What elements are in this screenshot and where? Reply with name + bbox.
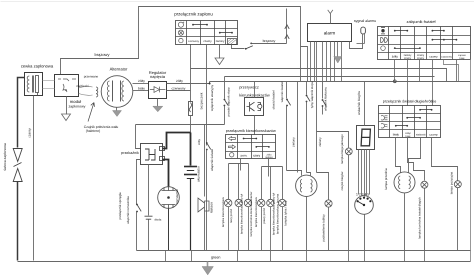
plate lamp podswietlenie tablicy bbox=[317, 173, 329, 200]
wire rail red from fuse line to right bbox=[191, 69, 447, 82]
light switch contacts row3 bbox=[394, 47, 396, 49]
svg-text:zielony: zielony bbox=[318, 137, 322, 147]
wire light circuit switch bbox=[286, 82, 288, 99]
svg-text:przekaźnik: przekaźnik bbox=[121, 151, 139, 155]
wire tail light down bbox=[306, 197, 308, 251]
wire regulator red output bbox=[167, 90, 191, 92]
wire alternator to regulator yellow bbox=[133, 83, 149, 85]
svg-text:żółty: żółty bbox=[392, 54, 399, 58]
svg-text:zapasowy: zapasowy bbox=[441, 55, 452, 58]
svg-text:wyłącznik awaryjny: wyłącznik awaryjny bbox=[210, 84, 214, 111]
emergency kill switch bbox=[206, 142, 208, 144]
svg-text:lampka kierunkowskazu lewy tył: lampka kierunkowskazu lewy tył bbox=[240, 193, 244, 234]
svg-text:1 2 3 4 5: 1 2 3 4 5 bbox=[356, 192, 369, 196]
svg-text:włącznik świateł: włącznik świateł bbox=[210, 149, 214, 171]
svg-text:lampka biegu jałowego: lampka biegu jałowego bbox=[340, 134, 344, 164]
svg-text:czarny: czarny bbox=[417, 57, 425, 60]
thick wire fuse junction to battery bbox=[190, 133, 192, 166]
contacts row2 bbox=[219, 32, 221, 34]
svg-text:lampka kierunkowskazu: lampka kierunkowskazu bbox=[221, 196, 225, 227]
svg-text:czujnik biegów: czujnik biegów bbox=[340, 171, 344, 191]
wire front brake switch bbox=[224, 77, 226, 99]
wire relay to starter button bbox=[137, 160, 141, 205]
svg-text:biały: biały bbox=[460, 57, 466, 60]
svg-text:biały: biały bbox=[406, 135, 412, 138]
ground alarm wire bbox=[337, 42, 339, 57]
ignition module modul zaplonowy bbox=[55, 75, 79, 97]
wire dimmer to high beam telltale bbox=[408, 138, 425, 181]
svg-text:cewka zapłonowa: cewka zapłonowa bbox=[21, 64, 54, 69]
spark plug swieca zaplonowa bbox=[13, 149, 22, 182]
icon low beam bbox=[381, 124, 388, 128]
wire siren to alarm bbox=[350, 34, 363, 49]
ground bus lower bbox=[18, 261, 471, 263]
icon park lights bbox=[381, 37, 388, 42]
wire flasher top bbox=[254, 82, 256, 98]
wire horn switch bbox=[322, 82, 324, 99]
svg-text:czerwony: czerwony bbox=[188, 40, 200, 43]
fuse F1 bezpiecznik bbox=[190, 45, 192, 102]
wires light switch down to bus bbox=[394, 60, 396, 82]
svg-text:lampka kontrolna kierunkowskaz: lampka kontrolna kierunkowskazów bbox=[249, 191, 253, 237]
svg-text:czarny: czarny bbox=[27, 128, 31, 138]
wire brown bus: module top to top bus line bbox=[61, 7, 301, 82]
alarm antenna bbox=[330, 14, 332, 24]
icon high beam bbox=[381, 116, 388, 120]
svg-text:podświetlenie tablicy: podświetlenie tablicy bbox=[321, 214, 325, 242]
icon headlight on bbox=[381, 29, 384, 32]
ground alternator bbox=[116, 108, 118, 111]
icon lights off bbox=[381, 46, 386, 51]
svg-text:włącznik świateł: włącznik świateł bbox=[280, 81, 284, 102]
turn lamp left rear bbox=[235, 199, 242, 206]
wire zielony to tail lamp bbox=[297, 82, 299, 171]
main ground arrow bbox=[207, 262, 209, 268]
headlight lampa przednia bbox=[394, 172, 415, 193]
svg-text:niebies: niebies bbox=[265, 156, 273, 159]
turn lamp right front bbox=[258, 199, 265, 206]
svg-text:brązowy: brązowy bbox=[95, 52, 110, 57]
horn klakson bbox=[204, 125, 206, 197]
wire battery to ground bus bbox=[190, 179, 192, 251]
turn lamp left front bbox=[225, 199, 232, 206]
svg-text:włącznik klaksonu: włącznik klaksonu bbox=[324, 87, 328, 111]
wire brake switch rear bbox=[306, 82, 308, 95]
wire main yellow bus to light switch bbox=[209, 82, 211, 84]
starter relay przekaznik bbox=[141, 144, 163, 165]
wire ignition col3 to ground bbox=[219, 45, 221, 59]
turn lamp telltale bbox=[244, 199, 251, 206]
svg-text:prawy przód: prawy przód bbox=[262, 208, 266, 224]
svg-text:alarm: alarm bbox=[324, 30, 336, 35]
wire headlight down bbox=[404, 193, 406, 251]
wire gear sensor down bbox=[364, 215, 366, 251]
svg-text:czarny: czarny bbox=[429, 54, 438, 58]
svg-text:przerywacz: przerywacz bbox=[239, 84, 259, 89]
wires turn lamps to ground bus bbox=[228, 207, 230, 251]
icon run position bbox=[178, 22, 183, 27]
svg-text:przełącznik sprzęgła: przełącznik sprzęgła bbox=[118, 192, 122, 220]
battery akumulator bbox=[184, 167, 197, 179]
wire kill switch to connector bbox=[252, 43, 287, 45]
connector wire with chevrons bbox=[286, 9, 288, 44]
svg-text:lampa przednia: lampa przednia bbox=[384, 168, 388, 189]
wire turn switch right output bbox=[268, 159, 270, 177]
wire ignition lock to kill switch bbox=[232, 45, 245, 49]
svg-text:przerwane: przerwane bbox=[84, 75, 99, 79]
wire alternator to regulator white bbox=[133, 90, 149, 92]
wire feeder to neutral lamp bbox=[317, 132, 349, 149]
svg-text:przedni włącznik stopu: przedni włącznik stopu bbox=[227, 87, 231, 116]
right edge wire bbox=[470, 60, 472, 262]
svg-text:rozrusznik: rozrusznik bbox=[175, 189, 179, 204]
svg-text:czarny: czarny bbox=[404, 57, 412, 60]
svg-text:przełącznik zapłonu: przełącznik zapłonu bbox=[174, 11, 213, 16]
wire starter to ground bus bbox=[168, 209, 170, 251]
icon arrow right bbox=[229, 145, 236, 149]
wire bus to relay coil bbox=[136, 125, 141, 149]
wire horn to ground bus bbox=[204, 211, 206, 251]
starter motor rozrusznik bbox=[158, 187, 180, 209]
alarm output wires bbox=[310, 42, 312, 82]
high beam telltale lamp bbox=[421, 181, 428, 188]
thick wire relay to battery feed bbox=[163, 133, 191, 149]
svg-text:czarny: czarny bbox=[429, 132, 438, 136]
dimmer contacts row1 bbox=[419, 109, 421, 111]
wire bus links bbox=[165, 251, 167, 262]
wires gear indicator to sensor bbox=[358, 150, 360, 195]
svg-text:sygnał alarmu: sygnał alarmu bbox=[354, 19, 376, 23]
wire mid supply bus bbox=[136, 124, 225, 126]
svg-text:przełącznik kierunkowskazów: przełącznik kierunkowskazów bbox=[226, 129, 276, 133]
thick wire relay to starter bbox=[163, 160, 169, 187]
wire left turn lamp bus bbox=[229, 163, 249, 165]
starter button wlacznik rozrusznika bbox=[136, 204, 138, 206]
svg-text:wskaźnik biegów: wskaźnik biegów bbox=[357, 90, 361, 115]
svg-text:żółty: żółty bbox=[138, 79, 145, 83]
icon lock position bbox=[179, 38, 183, 42]
svg-text:brązowy: brązowy bbox=[263, 39, 276, 43]
svg-text:lampka kierunkowskazu boczna: lampka kierunkowskazu boczna bbox=[276, 194, 280, 235]
wire turn switch left output bbox=[240, 159, 242, 171]
svg-text:świeca zapłonowa: świeca zapłonowa bbox=[3, 143, 7, 171]
svg-text:dioda: dioda bbox=[155, 218, 162, 222]
hatched ground cell bbox=[228, 39, 237, 45]
svg-text:żółty: żółty bbox=[197, 139, 201, 145]
svg-text:czarny: czarny bbox=[203, 39, 212, 43]
svg-text:obwód świateł: obwód świateł bbox=[271, 90, 275, 109]
wire gear indicator top bbox=[364, 82, 366, 126]
svg-text:Alternator: Alternator bbox=[110, 67, 128, 72]
wire dimmer to headlight left pin bbox=[396, 138, 401, 173]
svg-text:klakson: klakson bbox=[209, 202, 213, 213]
wire dimmer to position lamp bbox=[432, 138, 458, 181]
feeder wire from alarm to telltales bbox=[316, 82, 318, 173]
wire top bus corner jog bbox=[301, 47, 308, 82]
arrow to crank sensor bbox=[88, 103, 94, 122]
wire tail light pins bbox=[287, 171, 302, 176]
tail light lampa tylna bbox=[296, 175, 317, 196]
wire HT lead coil to spark plug bbox=[18, 78, 25, 148]
page edge top bbox=[1, 1, 474, 3]
wire dimmer to headlight right pin bbox=[409, 138, 421, 173]
light switch contacts row2 bbox=[432, 39, 434, 41]
voltage regulator U2 regulator napiecia bbox=[149, 82, 167, 99]
icon off turn bbox=[230, 153, 234, 157]
dimmer contacts row3 bbox=[395, 125, 397, 127]
svg-text:zielony: zielony bbox=[292, 137, 296, 147]
diode on relay coil bbox=[148, 165, 150, 216]
svg-text:szary: szary bbox=[253, 154, 261, 158]
svg-text:lampka kierunkowskazu: lampka kierunkowskazu bbox=[254, 196, 258, 227]
wire emergency switch vertical bbox=[206, 82, 208, 146]
wire rail switched bbox=[225, 76, 435, 78]
wire flasher bottom to turn switch bbox=[254, 116, 256, 135]
icon off position bbox=[178, 30, 183, 35]
wire coil secondary to ground bus bbox=[33, 96, 35, 261]
svg-text:włącznik rozrusznika: włącznik rozrusznika bbox=[126, 196, 130, 224]
dimmer contacts row2 bbox=[406, 117, 408, 119]
svg-text:czerwony: czerwony bbox=[172, 86, 186, 90]
neutral lamp lampka biegu jalowego bbox=[345, 148, 352, 155]
wire right turn lamp bus bbox=[262, 166, 283, 168]
svg-text:żółty: żółty bbox=[176, 79, 183, 83]
pickup coil czujnik bbox=[96, 87, 98, 97]
svg-text:(halotron): (halotron) bbox=[86, 129, 101, 133]
svg-text:napięcia: napięcia bbox=[150, 74, 166, 79]
ground bus upper green bbox=[137, 250, 471, 252]
svg-text:tylny włącznik stopu: tylny włącznik stopu bbox=[310, 81, 314, 108]
svg-text:akumulator: akumulator bbox=[197, 165, 201, 182]
svg-text:załącznik świateł: załącznik świateł bbox=[407, 19, 436, 24]
svg-text:pom.: pom. bbox=[241, 154, 248, 158]
icon arrow left bbox=[229, 137, 236, 141]
ground module bbox=[66, 97, 68, 115]
svg-text:lampka kontrolna świateł długi: lampka kontrolna świateł długich bbox=[417, 197, 421, 239]
alarm unit bbox=[308, 24, 352, 42]
wire ignition col2 down bbox=[206, 45, 208, 82]
svg-text:biały: biały bbox=[138, 87, 145, 91]
svg-text:niebieski: niebieski bbox=[416, 133, 426, 136]
turn contacts row1 bbox=[243, 138, 245, 140]
svg-text:bezpiecznik: bezpiecznik bbox=[200, 92, 204, 109]
wire coil to module links bbox=[43, 80, 55, 82]
svg-text:lewy przód: lewy przód bbox=[229, 209, 233, 223]
position lamp lampa pozycyjna bbox=[454, 181, 461, 188]
svg-text:zapłonowy: zapłonowy bbox=[69, 104, 86, 108]
ground regulator bbox=[157, 99, 159, 107]
contacts row1 bbox=[192, 24, 194, 26]
turn lamp right rear bbox=[267, 199, 274, 206]
wire regulator yellow output bus bbox=[167, 83, 210, 85]
turn contacts row2 bbox=[255, 146, 257, 148]
svg-text:lampa pozycyjna: lampa pozycyjna bbox=[450, 172, 454, 195]
svg-text:przełącznik świateł długie/kró: przełącznik świateł długie/krótkie bbox=[383, 100, 437, 104]
svg-text:zielony: zielony bbox=[216, 39, 225, 43]
wire spark plug to ground bus bbox=[17, 182, 19, 261]
ignition coil L1 cewka zaplonowa bbox=[25, 73, 43, 96]
kill switch on brown wire bbox=[245, 48, 247, 50]
svg-text:biały: biały bbox=[393, 132, 400, 136]
alternator G1 bbox=[101, 76, 133, 108]
gear position sensor czujnik biegow bbox=[355, 196, 374, 215]
license lamp bbox=[279, 199, 286, 206]
svg-text:green: green bbox=[211, 255, 220, 259]
light switch contacts row1 bbox=[394, 30, 396, 32]
